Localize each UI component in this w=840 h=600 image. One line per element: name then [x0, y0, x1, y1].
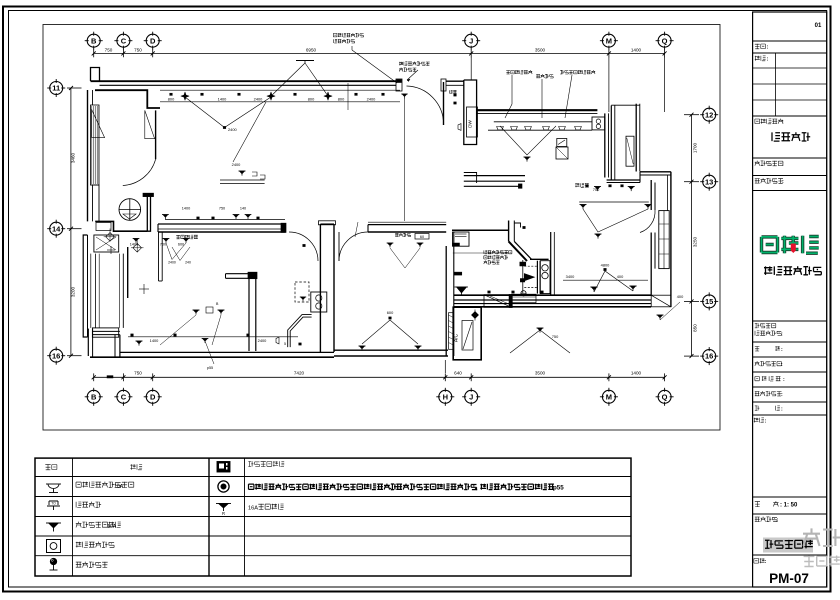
title row line L — [753, 401, 827, 403]
bedroom1 sockets top — [387, 242, 394, 244]
svg-text:400: 400 — [617, 274, 624, 279]
svg-text:B: B — [91, 36, 97, 45]
hall low socket line — [128, 336, 298, 338]
annotation entry text — [399, 62, 430, 66]
east outer wall — [670, 172, 672, 307]
mid hall cluster 1 — [165, 219, 285, 221]
door swing triangle entry wall — [145, 110, 155, 138]
svg-text:3460: 3460 — [71, 152, 76, 163]
svg-text:800: 800 — [338, 97, 345, 102]
bath1 annotation block — [484, 250, 512, 254]
svg-text::: : — [767, 45, 769, 51]
wall top outer B-entry — [91, 80, 402, 82]
legend row1 text — [76, 482, 134, 488]
svg-text:16: 16 — [52, 351, 60, 360]
title row line M — [753, 414, 827, 416]
legend sym alarm button — [47, 540, 61, 553]
svg-text:M: M — [606, 36, 612, 45]
svg-text:6950: 6950 — [306, 48, 317, 53]
title label shigongfuzeren — [755, 391, 782, 396]
kitchen distribution box — [557, 139, 567, 147]
window left wall hatched — [91, 105, 100, 185]
svg-text:B: B — [91, 392, 97, 401]
title label bili scale — [755, 501, 760, 506]
svg-text:750: 750 — [219, 207, 225, 211]
svg-text:PM-07: PM-07 — [769, 571, 809, 586]
bath1 west wall — [445, 246, 447, 356]
svg-text:3200: 3200 — [71, 286, 76, 297]
legend sym socket 5hole — [46, 522, 61, 524]
legend sym terminal — [50, 558, 56, 564]
svg-text:DW: DW — [468, 120, 473, 128]
kitchen top connector — [611, 104, 640, 106]
bottom dimension line — [94, 376, 665, 378]
legend row3 text — [76, 522, 121, 528]
wall top entry to pillar — [446, 80, 464, 82]
bath1 inner east wall — [536, 261, 538, 294]
title row line B — [753, 52, 827, 54]
grid bubble M top — [602, 34, 615, 47]
svg-text:3500: 3500 — [535, 48, 546, 53]
living south wall — [158, 223, 286, 225]
svg-text:M: M — [606, 392, 612, 401]
title row line J — [753, 371, 827, 373]
bedroom1 east wall — [248, 274, 250, 351]
svg-text:15: 15 — [705, 297, 713, 306]
title row line N — [753, 496, 827, 498]
legend header 说明 — [130, 464, 142, 470]
legend sym network socket — [47, 501, 60, 510]
bath1 NW wall hook — [514, 223, 520, 228]
svg-text:2400: 2400 — [254, 97, 263, 102]
kitchen sink box — [592, 117, 605, 130]
svg-text:400: 400 — [677, 294, 684, 299]
svg-text:16: 16 — [705, 352, 713, 361]
title drawing name highlight — [763, 538, 813, 553]
living south wall pier — [509, 294, 512, 307]
bath1 inner top wall — [530, 258, 549, 260]
left outer wall upper — [87, 90, 89, 221]
kitchen fridge box — [556, 147, 568, 159]
living SE ceiling lights — [590, 286, 597, 288]
svg-text::: : — [781, 347, 783, 353]
svg-text::: : — [781, 362, 783, 368]
svg-text:3400: 3400 — [566, 274, 575, 279]
kitchen counter bottom line — [488, 129, 592, 131]
svg-text:850: 850 — [693, 324, 698, 332]
wall pillar top-left — [91, 68, 100, 82]
grid bubble C top — [117, 34, 130, 47]
svg-text:10A: 10A — [107, 524, 117, 530]
title label xiangmujingli — [755, 376, 781, 381]
grid bubble H bottom — [439, 390, 452, 403]
corridor light line — [579, 201, 649, 203]
grid bubble 16 right — [703, 350, 716, 363]
svg-text:10A: 10A — [114, 484, 124, 490]
svg-text:J: J — [469, 36, 473, 45]
svg-text::: : — [777, 518, 779, 524]
svg-text:12: 12 — [705, 110, 713, 119]
living room long leader — [347, 83, 349, 110]
svg-text:A/C: A/C — [454, 333, 460, 342]
svg-text:D: D — [150, 392, 156, 401]
svg-text:1700: 1700 — [693, 142, 698, 153]
grid bubble C bottom — [117, 390, 130, 403]
bedroom1 east wall cap — [248, 272, 257, 279]
legend table column lines — [72, 458, 74, 576]
bedroom3 socket2 — [299, 343, 302, 345]
kitchen top wall outer — [477, 109, 598, 111]
center wall top cap — [319, 221, 336, 225]
living east wall lower — [650, 233, 652, 296]
svg-text:14: 14 — [52, 224, 61, 233]
svg-text:750: 750 — [593, 187, 600, 192]
svg-text:Q: Q — [662, 36, 668, 45]
bath2 dashed cabinet — [295, 282, 309, 302]
grid line Q down — [664, 57, 666, 112]
kitchen counter edge — [494, 121, 592, 123]
title row line A — [753, 40, 827, 42]
svg-text:3500: 3500 — [535, 371, 546, 376]
entry-living door leaf — [155, 110, 157, 159]
title label shitubianhao — [755, 161, 783, 166]
svg-text::: : — [781, 392, 783, 398]
svg-text::: : — [765, 419, 767, 425]
svg-text:: 1: 50: : 1: 50 — [780, 503, 798, 509]
cove line upper — [160, 89, 400, 91]
entry sockets right wall — [454, 94, 457, 96]
bedroom1 east wall stub — [226, 273, 256, 275]
left dimension line — [70, 88, 72, 356]
legend row4 text — [76, 542, 114, 548]
kitchen leader lines — [505, 75, 512, 118]
legend right row1 bold text — [249, 484, 397, 490]
logo chengzhushuo outline — [762, 236, 819, 253]
legend sym socket splash — [46, 483, 61, 485]
hall cross symbol 2 — [110, 246, 112, 254]
legend sym intercom — [217, 462, 230, 473]
bath1 grey line — [453, 252, 509, 254]
title row line C — [753, 115, 827, 117]
svg-text:16A: 16A — [248, 506, 258, 512]
svg-text:240: 240 — [185, 261, 191, 265]
living ceiling leader V — [185, 97, 271, 128]
svg-text:01: 01 — [815, 23, 822, 29]
svg-text:C: C — [121, 36, 127, 45]
bath1 sink leader column — [522, 260, 524, 294]
svg-text:Q: Q — [662, 392, 668, 401]
bath1 shower symbol — [455, 286, 469, 288]
living south wall band — [454, 294, 651, 296]
title label riqi — [755, 56, 766, 61]
svg-text:1400: 1400 — [218, 97, 227, 102]
right dimension line — [691, 115, 693, 356]
dining cluster leader from cove — [233, 102, 266, 162]
kitchen annotation texts — [506, 70, 532, 74]
mid hall sockets row — [133, 238, 140, 240]
center wall column — [319, 224, 321, 352]
svg-text::: : — [783, 377, 785, 383]
grid bubble 15 right — [703, 295, 716, 308]
svg-text:R: R — [222, 511, 225, 516]
cove pendant leader — [296, 60, 314, 62]
svg-text::: : — [767, 57, 769, 63]
title row line E — [753, 175, 827, 177]
bath2 bowl — [300, 296, 306, 298]
bath2 door socks — [303, 244, 306, 246]
entrance steps band 2 — [511, 294, 536, 303]
left wall inner line lower — [92, 185, 94, 221]
grid bubble Q bottom — [658, 390, 671, 403]
living east wall upper — [650, 180, 652, 210]
grid line M down — [608, 57, 610, 112]
svg-text:11: 11 — [52, 84, 60, 93]
kitchen right wall — [604, 113, 606, 177]
entry hall L-step wall — [95, 221, 147, 231]
entry-living door arc — [123, 159, 156, 185]
legend header 图例 — [45, 464, 57, 470]
entry hall wall cap — [143, 193, 154, 196]
shoe cabinet DW — [467, 107, 478, 137]
title label shenhe — [755, 406, 760, 411]
corridor south wall inner — [464, 185, 519, 187]
kitchen downlight fan — [500, 126, 556, 155]
svg-text::: : — [782, 179, 784, 185]
bath1 chamfer diagonal wall — [509, 241, 527, 261]
hall low sockets — [131, 334, 134, 336]
left wall inner — [92, 90, 94, 105]
grid bubble J bottom — [465, 390, 478, 403]
AC closet balcony — [453, 307, 481, 360]
hall lamp pair — [192, 309, 199, 311]
entrance steps — [484, 295, 511, 308]
grid bubble 14 left — [50, 222, 63, 235]
hall lamp leader — [160, 315, 196, 345]
svg-text:750: 750 — [134, 48, 142, 53]
grid bubble B top — [87, 34, 100, 47]
bath1 circle symbol — [521, 291, 526, 296]
svg-text::: : — [765, 559, 767, 565]
title row line D — [753, 157, 827, 159]
AC north arrow — [472, 312, 479, 319]
svg-text::: : — [781, 407, 783, 413]
svg-text:1400: 1400 — [631, 48, 642, 53]
top dimension line — [94, 52, 665, 54]
grid bubble 12 right — [703, 108, 716, 121]
cove star lights row — [181, 92, 189, 100]
bedroom3 top wall — [368, 221, 446, 223]
annotation entry leader — [407, 70, 418, 80]
door swing triangle left wall — [92, 109, 105, 137]
svg-text:2400: 2400 — [367, 97, 376, 102]
bedroom1 ceiling cluster — [355, 222, 358, 237]
title label xiugai — [755, 44, 766, 49]
kitchen top wall inner — [477, 113, 598, 115]
entry hall wall column — [147, 194, 150, 231]
svg-text:p55: p55 — [553, 485, 564, 492]
NE corner wall horizontal — [640, 171, 671, 173]
wall soffit living north — [95, 90, 160, 108]
entry wsym — [458, 124, 461, 131]
bath1 sink symbol — [524, 274, 534, 281]
title label gongcheng xiangmu — [755, 119, 783, 124]
corridor wall left jog — [464, 173, 477, 184]
corridor wall jamb cap — [518, 184, 522, 188]
bath1 top wall — [452, 229, 509, 231]
svg-text:H: H — [443, 392, 448, 401]
corridor leader fan — [583, 209, 648, 232]
kitchen second wall pair — [610, 106, 612, 181]
svg-text:750: 750 — [552, 334, 559, 339]
grid bubble J top — [465, 34, 478, 47]
bottom-left wall legs — [87, 329, 89, 356]
mid hall leader stems — [166, 243, 186, 260]
wall socket box bedroom3 — [415, 234, 429, 240]
cove socket marks — [170, 93, 173, 95]
legend table frame — [35, 458, 631, 576]
drawing viewport frame — [43, 25, 720, 431]
door leaf left-wall lower — [91, 185, 100, 221]
title row line G — [753, 320, 827, 322]
svg-text:640: 640 — [454, 371, 462, 376]
title row line K — [753, 386, 827, 388]
corridor south wall mid — [464, 180, 525, 182]
title label zhuangshigongcheng — [755, 323, 776, 328]
svg-text:1400: 1400 — [130, 243, 138, 247]
bedroom3 leader vertical — [404, 98, 406, 221]
svg-text:J: J — [469, 392, 473, 401]
title label shejifuzeren — [755, 331, 781, 336]
svg-text:D: D — [150, 36, 156, 45]
bath1 NW corner wall — [508, 221, 510, 242]
svg-text:750: 750 — [105, 48, 113, 53]
flat bottom wall left — [120, 351, 334, 353]
title row line I — [753, 356, 827, 358]
flat bottom wall mid — [334, 349, 448, 351]
legend row2 text — [76, 502, 101, 508]
grid bubble 13 right — [703, 175, 716, 188]
svg-text:60: 60 — [420, 235, 424, 239]
grid bubble M bottom — [602, 390, 615, 403]
ceiling fan hallway — [119, 199, 141, 221]
svg-text:3250: 3250 — [693, 236, 698, 247]
hall cross symbol — [143, 284, 145, 294]
bedroom3 door leaf — [338, 232, 340, 261]
svg-text::: : — [782, 120, 784, 126]
watermark jihuo activate — [803, 528, 840, 546]
title date table lines — [774, 53, 776, 116]
living east door arc — [640, 210, 655, 233]
bedroom3 door arc — [339, 232, 368, 261]
title drawing name 原始平面图 — [765, 540, 813, 549]
bay window sill box bottom — [92, 328, 118, 337]
kitchen counter cabinets — [497, 127, 504, 130]
bedroom3 bottom cluster — [362, 320, 418, 344]
corridor lights — [594, 186, 601, 188]
bay window bedroom1 outer — [83, 235, 87, 337]
svg-text:13: 13 — [705, 177, 713, 186]
living north wall right segment — [607, 179, 640, 181]
svg-text:750: 750 — [134, 371, 142, 376]
legend table row lines — [35, 476, 631, 478]
corridor pseudo text FI — [575, 183, 589, 187]
svg-text::: : — [781, 332, 783, 338]
kitchen AC unit box — [626, 136, 634, 166]
grid bubble 16 left — [50, 349, 63, 362]
title label tuzhimingcheng — [755, 517, 777, 522]
svg-text:4800: 4800 — [601, 263, 610, 268]
entry pillar right wall — [464, 80, 477, 145]
bedroom3 socket wall — [276, 337, 279, 344]
balcony cluster — [510, 330, 570, 353]
svg-text::: : — [782, 162, 784, 168]
svg-text:2400: 2400 — [168, 261, 176, 265]
bay window sill box top — [94, 235, 119, 252]
bedroom1 door arc — [289, 232, 318, 261]
svg-text:p55: p55 — [207, 366, 213, 370]
annotation top leader — [351, 46, 353, 50]
title label tuhao — [754, 558, 765, 563]
study socket cluster right — [656, 314, 663, 316]
bath1 top sock — [523, 226, 526, 228]
grid bubble 11 left — [50, 82, 63, 95]
grid bubble B bottom — [87, 390, 100, 403]
logo chengzhushuo — [762, 236, 819, 253]
hall diamond symbol — [133, 244, 142, 253]
south band socket marks — [488, 291, 491, 293]
living south wall corner — [651, 295, 671, 307]
svg-text:2400: 2400 — [232, 162, 241, 167]
living SE leader baseline — [563, 279, 648, 281]
bath2 shower screen — [288, 315, 312, 348]
svg-text:TO: TO — [51, 502, 56, 506]
bedroom1 pseudo labels — [395, 233, 410, 237]
title project name 室内设计 — [772, 132, 810, 141]
svg-text:140: 140 — [240, 207, 246, 211]
svg-text:800: 800 — [168, 97, 175, 102]
grid line H up from bottom — [444, 360, 446, 373]
bath1 washer column — [540, 261, 550, 294]
svg-text:600: 600 — [387, 310, 394, 315]
hall low leader — [139, 338, 150, 346]
bay window mullion lines — [95, 254, 97, 328]
title label jidianfuzeren — [755, 361, 782, 366]
bath1 dashed lines — [524, 266, 537, 287]
annotation top small text — [333, 33, 363, 37]
wall top inner line — [100, 84, 402, 86]
living east window box — [659, 211, 669, 269]
svg-text:1400: 1400 — [631, 371, 642, 376]
title row line H — [753, 341, 827, 343]
svg-text:C: C — [121, 392, 127, 401]
svg-text:1400: 1400 — [182, 207, 190, 211]
title block frame — [753, 12, 827, 587]
svg-text:2400: 2400 — [258, 338, 267, 343]
bath1 east wall — [550, 232, 552, 295]
entry door opening jamb right — [441, 79, 446, 91]
title label beizhu — [754, 418, 764, 423]
svg-text:1400: 1400 — [150, 338, 159, 343]
wall entry door jamb block left — [396, 79, 402, 91]
kitchen sockets row bottom — [586, 185, 589, 187]
title row line F — [753, 190, 827, 192]
bay window side lines — [87, 235, 89, 337]
hall diamond symbol 2 — [106, 233, 115, 242]
title label huizhi — [755, 346, 760, 351]
bay window inner vertical — [122, 254, 124, 328]
living south wall jamb cap — [281, 223, 286, 232]
svg-text:800: 800 — [308, 97, 315, 102]
